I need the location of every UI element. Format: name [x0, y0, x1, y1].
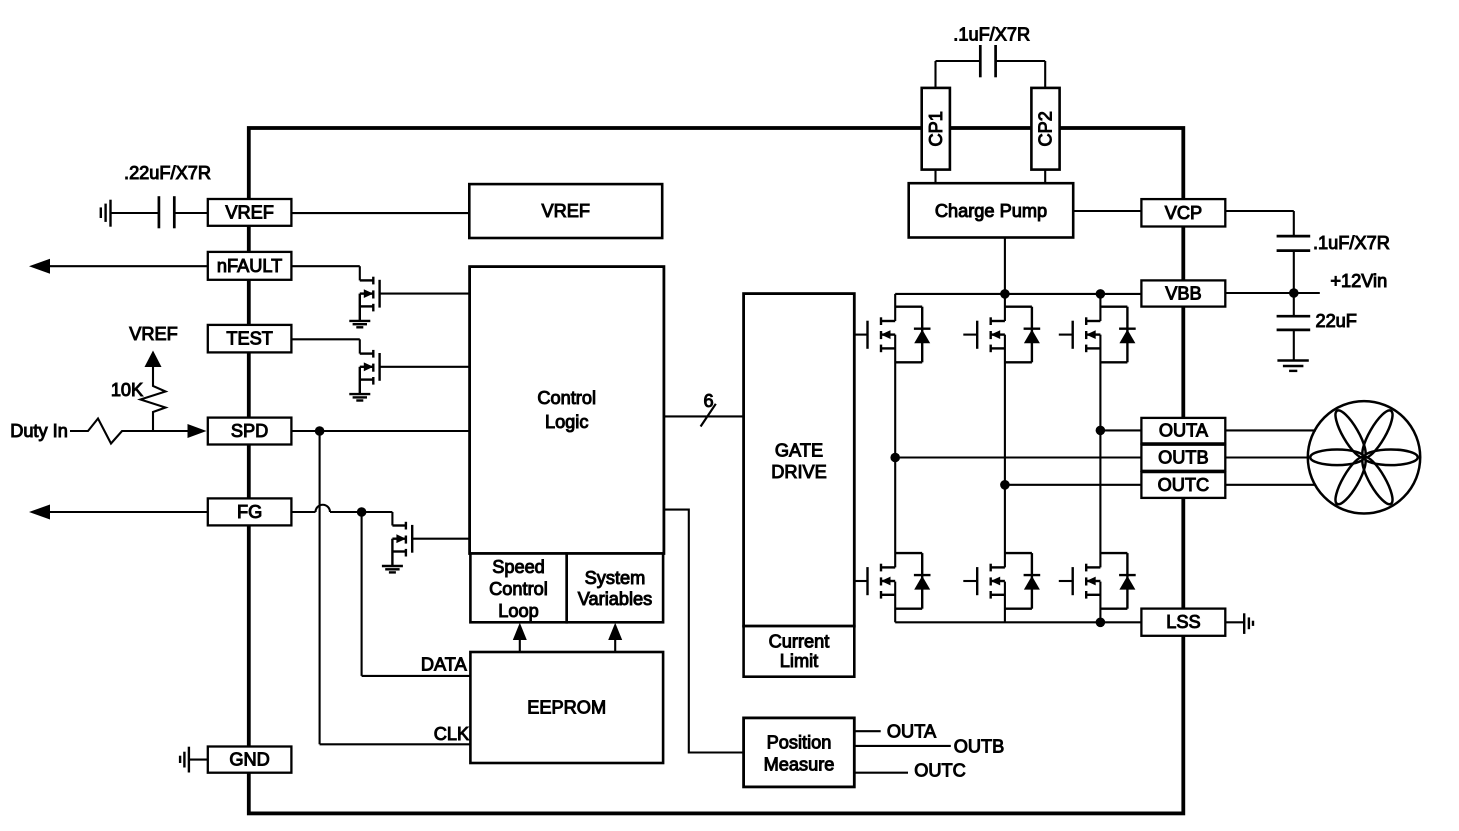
svg-text:6: 6: [703, 391, 713, 411]
svg-text:DATA: DATA: [421, 655, 468, 675]
svg-text:+12Vin: +12Vin: [1330, 271, 1387, 291]
svg-text:VBB: VBB: [1165, 284, 1201, 304]
svg-text:VREF: VREF: [129, 324, 178, 344]
svg-text:OUTC: OUTC: [914, 760, 966, 780]
svg-text:LSS: LSS: [1166, 612, 1200, 632]
svg-text:.1uF/X7R: .1uF/X7R: [1313, 233, 1390, 253]
svg-text:VREF: VREF: [225, 202, 274, 222]
svg-text:CP1: CP1: [926, 111, 946, 146]
svg-text:OUTB: OUTB: [1158, 448, 1209, 468]
svg-text:Measure: Measure: [764, 755, 835, 775]
svg-text:Charge Pump: Charge Pump: [935, 201, 1047, 221]
svg-text:OUTB: OUTB: [954, 736, 1005, 756]
svg-text:Position: Position: [767, 733, 832, 753]
svg-text:EEPROM: EEPROM: [527, 698, 606, 718]
svg-text:System: System: [585, 568, 646, 588]
svg-text:CLK: CLK: [434, 724, 469, 744]
svg-text:FG: FG: [237, 502, 262, 522]
svg-text:GND: GND: [229, 750, 269, 770]
svg-text:OUTC: OUTC: [1158, 475, 1210, 495]
svg-text:Loop: Loop: [498, 601, 538, 621]
svg-text:TEST: TEST: [226, 329, 272, 349]
svg-text:DRIVE: DRIVE: [771, 462, 827, 482]
svg-text:10K: 10K: [111, 380, 143, 400]
svg-text:Control: Control: [537, 388, 596, 408]
svg-text:OUTA: OUTA: [887, 722, 937, 742]
svg-text:VCP: VCP: [1165, 203, 1202, 223]
svg-text:.22uF/X7R: .22uF/X7R: [124, 163, 211, 183]
svg-text:Logic: Logic: [545, 412, 588, 432]
svg-text:CP2: CP2: [1036, 111, 1056, 146]
svg-text:Duty In: Duty In: [10, 421, 68, 441]
svg-text:OUTA: OUTA: [1159, 421, 1209, 441]
svg-text:22uF: 22uF: [1315, 311, 1356, 331]
svg-text:.1uF/X7R: .1uF/X7R: [953, 25, 1030, 45]
svg-text:VREF: VREF: [541, 201, 590, 221]
svg-text:Current: Current: [769, 631, 830, 651]
svg-text:Control: Control: [489, 579, 548, 599]
svg-text:SPD: SPD: [231, 421, 268, 441]
svg-text:Limit: Limit: [780, 651, 818, 671]
svg-text:Speed: Speed: [492, 557, 545, 577]
svg-text:Variables: Variables: [578, 589, 652, 609]
svg-text:nFAULT: nFAULT: [217, 256, 282, 276]
svg-text:GATE: GATE: [775, 441, 823, 461]
